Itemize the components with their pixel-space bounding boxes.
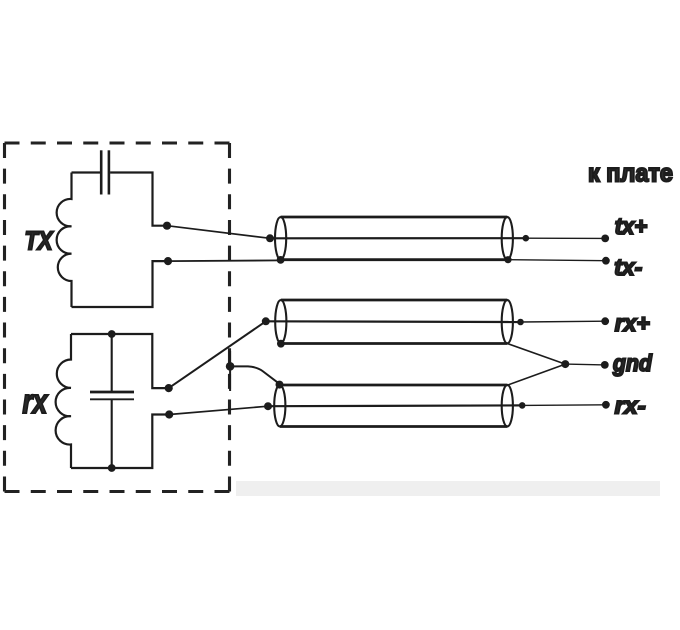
node RX- terminal [165,410,173,418]
wire rx- lead [522,404,606,407]
node coax W3 shield left [276,381,284,389]
wire rx+ lead [521,320,606,323]
wire tx+ lead [526,237,605,239]
node coax W1 center left [266,234,274,242]
node coax W3 center left [264,402,272,410]
wire coax W2 shield to gnd junction [507,344,565,365]
coax W2 center conductor [266,320,521,323]
wire RX center branch (capacitor leg) [111,334,113,468]
wire RX tank loop (top, right, bottom) [71,334,169,468]
svg-text:tx-: tx- [614,254,642,280]
faint scan smudge band [236,481,660,496]
node RX branch top junction [108,330,116,338]
node coax W2 center exit [517,319,524,326]
node TX- terminal [164,257,172,265]
svg-text:rx+: rx+ [615,310,650,336]
svg-text:rx: rx [22,383,49,421]
coax cable W1 shield (tx pair) [275,217,513,260]
coax W1 center conductor [270,237,526,239]
capacitor C_rx (parallel, horizontal plates) [90,392,134,399]
node rx+ [601,317,609,325]
svg-text:к плате: к плате [588,160,673,188]
wire gnd lead [565,363,605,366]
svg-text:rx-: rx- [615,393,646,419]
node coax W1 shield left [277,256,285,264]
node tx- [602,257,610,265]
node coax W3 center exit [519,402,526,409]
node rx- [602,401,610,409]
wire shield tap segment on box edge [230,351,279,391]
svg-text:tx+: tx+ [615,213,648,239]
wire TX+ to coax W1 center [167,226,270,239]
node coax W1 center exit [523,235,530,242]
coax W3 center conductor [268,404,522,407]
node gnd junction [561,360,569,368]
node coax W1 shield right [504,256,511,263]
coax cable W2 shield (rx+) [275,300,513,344]
coax cable W3 shield (rx-) [274,385,513,427]
wire coax W3 shield to gnd junction [507,364,565,385]
node tx+ [601,235,609,243]
node coax W2 shield left [277,340,285,348]
capacitor C_tx (series, top) [101,150,109,194]
wire TX- to coax W1 shield [168,259,281,262]
node coax W2 center left [262,317,270,325]
wire RX- to coax W3 center [169,406,268,414]
wire TX tank loop (top, right, bottom) [72,173,169,308]
inductor RX coil [56,334,71,468]
node shield tap junction [226,362,235,371]
svg-text:ТХ: ТХ [25,228,55,256]
wire RX+ to coax W2 center [169,321,266,388]
node RX+ terminal [165,384,173,392]
node RX branch bottom junction [108,464,116,472]
node TX+ terminal [163,222,171,230]
svg-text:gnd: gnd [612,350,653,376]
node gnd [601,361,609,369]
inductor TX coil [57,173,72,308]
wire tx- lead [508,260,606,261]
dashed enclosure box (coil unit boundary) [5,143,230,492]
